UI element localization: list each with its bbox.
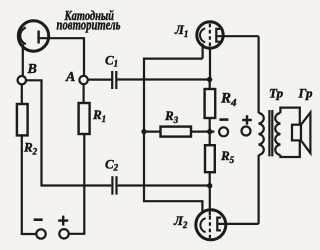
tube L1 grid lead [209, 47, 211, 80]
svg-text:R4: R4 [220, 91, 237, 110]
tube L2 grid dashed [209, 216, 211, 238]
tube L1 envelope [197, 22, 223, 48]
svg-text:С2: С2 [105, 156, 119, 172]
capacitor C2 [112, 176, 116, 194]
svg-text:повторитель: повторитель [57, 17, 121, 33]
tube V0 plate bar [37, 31, 39, 44]
junction dot R4 R5 [207, 129, 212, 134]
junction dot grid L2 [207, 183, 212, 188]
battery plus sign [58, 216, 68, 226]
wire R5 bottom stub [209, 172, 211, 186]
wire anode rail upper [258, 36, 260, 113]
tube L2 envelope [196, 210, 226, 240]
speaker Gr horn [301, 113, 310, 154]
wire R4 top stub [209, 80, 211, 90]
battery terminal minus [36, 229, 45, 238]
svg-text:R3: R3 [164, 108, 179, 125]
wire L1 cathode run to L2 cathode [144, 59, 203, 214]
wire C1 to tube L1 grid junction [118, 78, 210, 80]
tube L1 cathode lead [202, 44, 204, 59]
supply plus sign [242, 115, 252, 125]
wire V0 bottom to node B [22, 44, 24, 76]
tube L1 grid dashed [209, 24, 211, 47]
tube L1 cathode arc [200, 28, 205, 42]
wire R5 top stub [209, 132, 211, 146]
svg-text:А: А [65, 70, 75, 85]
supply terminal plus [242, 127, 251, 136]
battery terminal plus [59, 229, 68, 238]
wire anode rail lower [258, 155, 260, 224]
supply terminal minus [219, 127, 228, 136]
tube V0 cathode follower envelope [18, 21, 48, 51]
capacitor C1 [112, 71, 116, 89]
transformer Tr primary coil [259, 113, 264, 155]
node A terminal [79, 76, 87, 84]
wire secondary loop [280, 108, 299, 157]
wire node B to C2 line [26, 80, 111, 185]
svg-text:С1: С1 [105, 53, 118, 69]
wire R3 right to minus terminal [191, 131, 214, 133]
wire node B to R2 [21, 84, 23, 104]
tube L2 grid lead [209, 186, 211, 216]
wire C2 to grid L2 junction [118, 184, 210, 186]
resistor R4 [205, 89, 216, 118]
battery minus sign [34, 218, 43, 221]
junction dot grid L1 [207, 77, 212, 82]
svg-text:Гр: Гр [298, 86, 313, 101]
resistor R2 [17, 104, 28, 135]
wire node A to R1 [82, 84, 84, 103]
tube V0 cathode arc [20, 28, 26, 45]
svg-text:R2: R2 [23, 140, 38, 157]
svg-text:R5: R5 [220, 148, 235, 165]
svg-text:R1: R1 [92, 107, 106, 124]
svg-text:Тр: Тр [269, 86, 284, 101]
resistor R1 [79, 103, 90, 134]
tube L2 anode bracket [217, 218, 221, 231]
wire R3 left [144, 131, 161, 133]
wire node A to C1 [88, 78, 112, 80]
transformer Tr core [269, 110, 272, 156]
supply minus sign [219, 118, 228, 121]
tube L2 anode lead [218, 223, 258, 225]
tube L2 cathode arc [200, 218, 205, 232]
speaker Gr frame [292, 125, 301, 141]
transformer Tr secondary coil [275, 113, 280, 155]
svg-text:В: В [27, 62, 37, 77]
svg-text:Л2: Л2 [173, 213, 188, 230]
tube L1 anode lead [217, 35, 258, 37]
junction dot cathode line and R3 [141, 129, 146, 134]
node B terminal [18, 76, 26, 84]
resistor R3 [161, 127, 192, 137]
wire R4 bottom stub [209, 118, 211, 132]
wire battery plus to R1 [69, 134, 85, 234]
tube L1 anode bracket [216, 29, 220, 42]
wire V0 plate to node A [39, 38, 84, 76]
svg-text:Л1: Л1 [174, 22, 188, 39]
resistor R5 [205, 145, 215, 172]
wire R2 to battery minus [22, 135, 36, 234]
